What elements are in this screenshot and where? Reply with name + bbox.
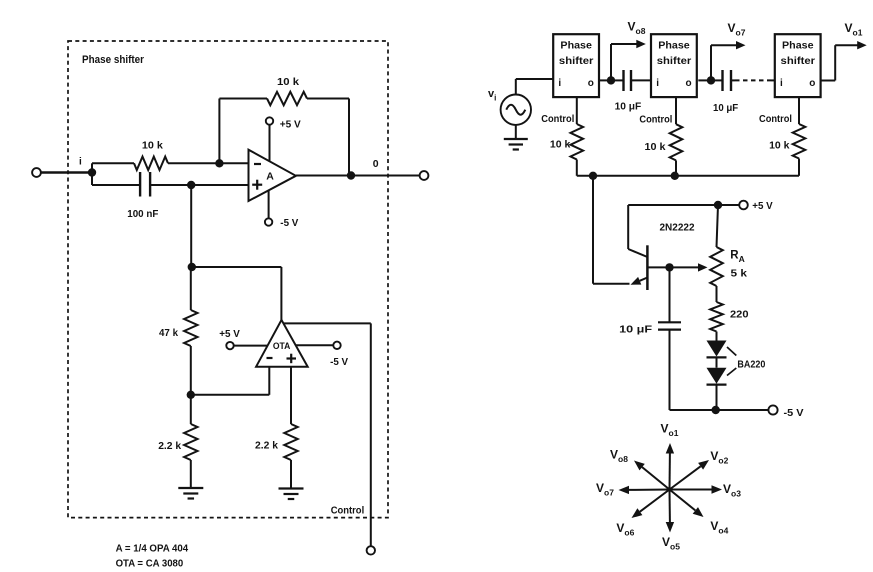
svg-text:i: i [780,78,783,89]
svg-text:10 k: 10 k [277,76,299,88]
svg-text:A: A [266,171,274,183]
svg-text:Control: Control [331,505,365,517]
svg-text:OTA = CA 3080: OTA = CA 3080 [116,558,184,570]
svg-text:o: o [588,78,594,89]
svg-text:Phase: Phase [560,40,592,51]
svg-text:+5 V: +5 V [280,119,301,131]
svg-text:10 μF: 10 μF [619,324,653,336]
svg-text:-5 V: -5 V [784,407,804,419]
svg-text:220: 220 [730,309,749,321]
svg-text:shifter: shifter [559,56,594,67]
svg-text:+5 V: +5 V [219,328,240,340]
svg-text:Control: Control [541,113,574,125]
svg-text:2N2222: 2N2222 [660,222,695,234]
svg-text:47 k: 47 k [159,327,178,339]
svg-text:o: o [686,78,692,89]
svg-text:Phase: Phase [782,40,814,51]
svg-text:i: i [79,157,82,168]
svg-text:A = 1/4 OPA 404: A = 1/4 OPA 404 [116,543,189,555]
svg-text:10 μF: 10 μF [615,101,642,113]
svg-text:10 k: 10 k [645,141,666,153]
svg-text:10 k: 10 k [550,139,571,151]
svg-text:Control: Control [759,113,792,125]
svg-text:+5 V: +5 V [752,200,772,212]
svg-text:2.2 k: 2.2 k [255,440,278,452]
svg-text:10 k: 10 k [769,140,790,152]
svg-text:OTA: OTA [273,341,291,352]
svg-text:100 nF: 100 nF [127,208,159,220]
svg-text:shifter: shifter [781,56,816,67]
svg-text:Phase: Phase [658,40,690,51]
svg-text:0: 0 [373,158,379,170]
svg-text:-5 V: -5 V [280,217,298,229]
svg-text:shifter: shifter [657,56,692,67]
svg-text:i: i [656,78,659,89]
svg-text:2.2 k: 2.2 k [158,440,181,452]
svg-text:Control: Control [639,114,672,126]
svg-text:-5 V: -5 V [330,356,348,368]
svg-text:BA220: BA220 [737,359,765,371]
svg-text:i: i [558,78,561,89]
svg-text:10 μF: 10 μF [713,102,739,114]
svg-text:Phase shifter: Phase shifter [82,54,145,66]
svg-text:o: o [809,78,815,89]
svg-text:10 k: 10 k [142,140,163,152]
svg-text:5 k: 5 k [731,268,748,280]
